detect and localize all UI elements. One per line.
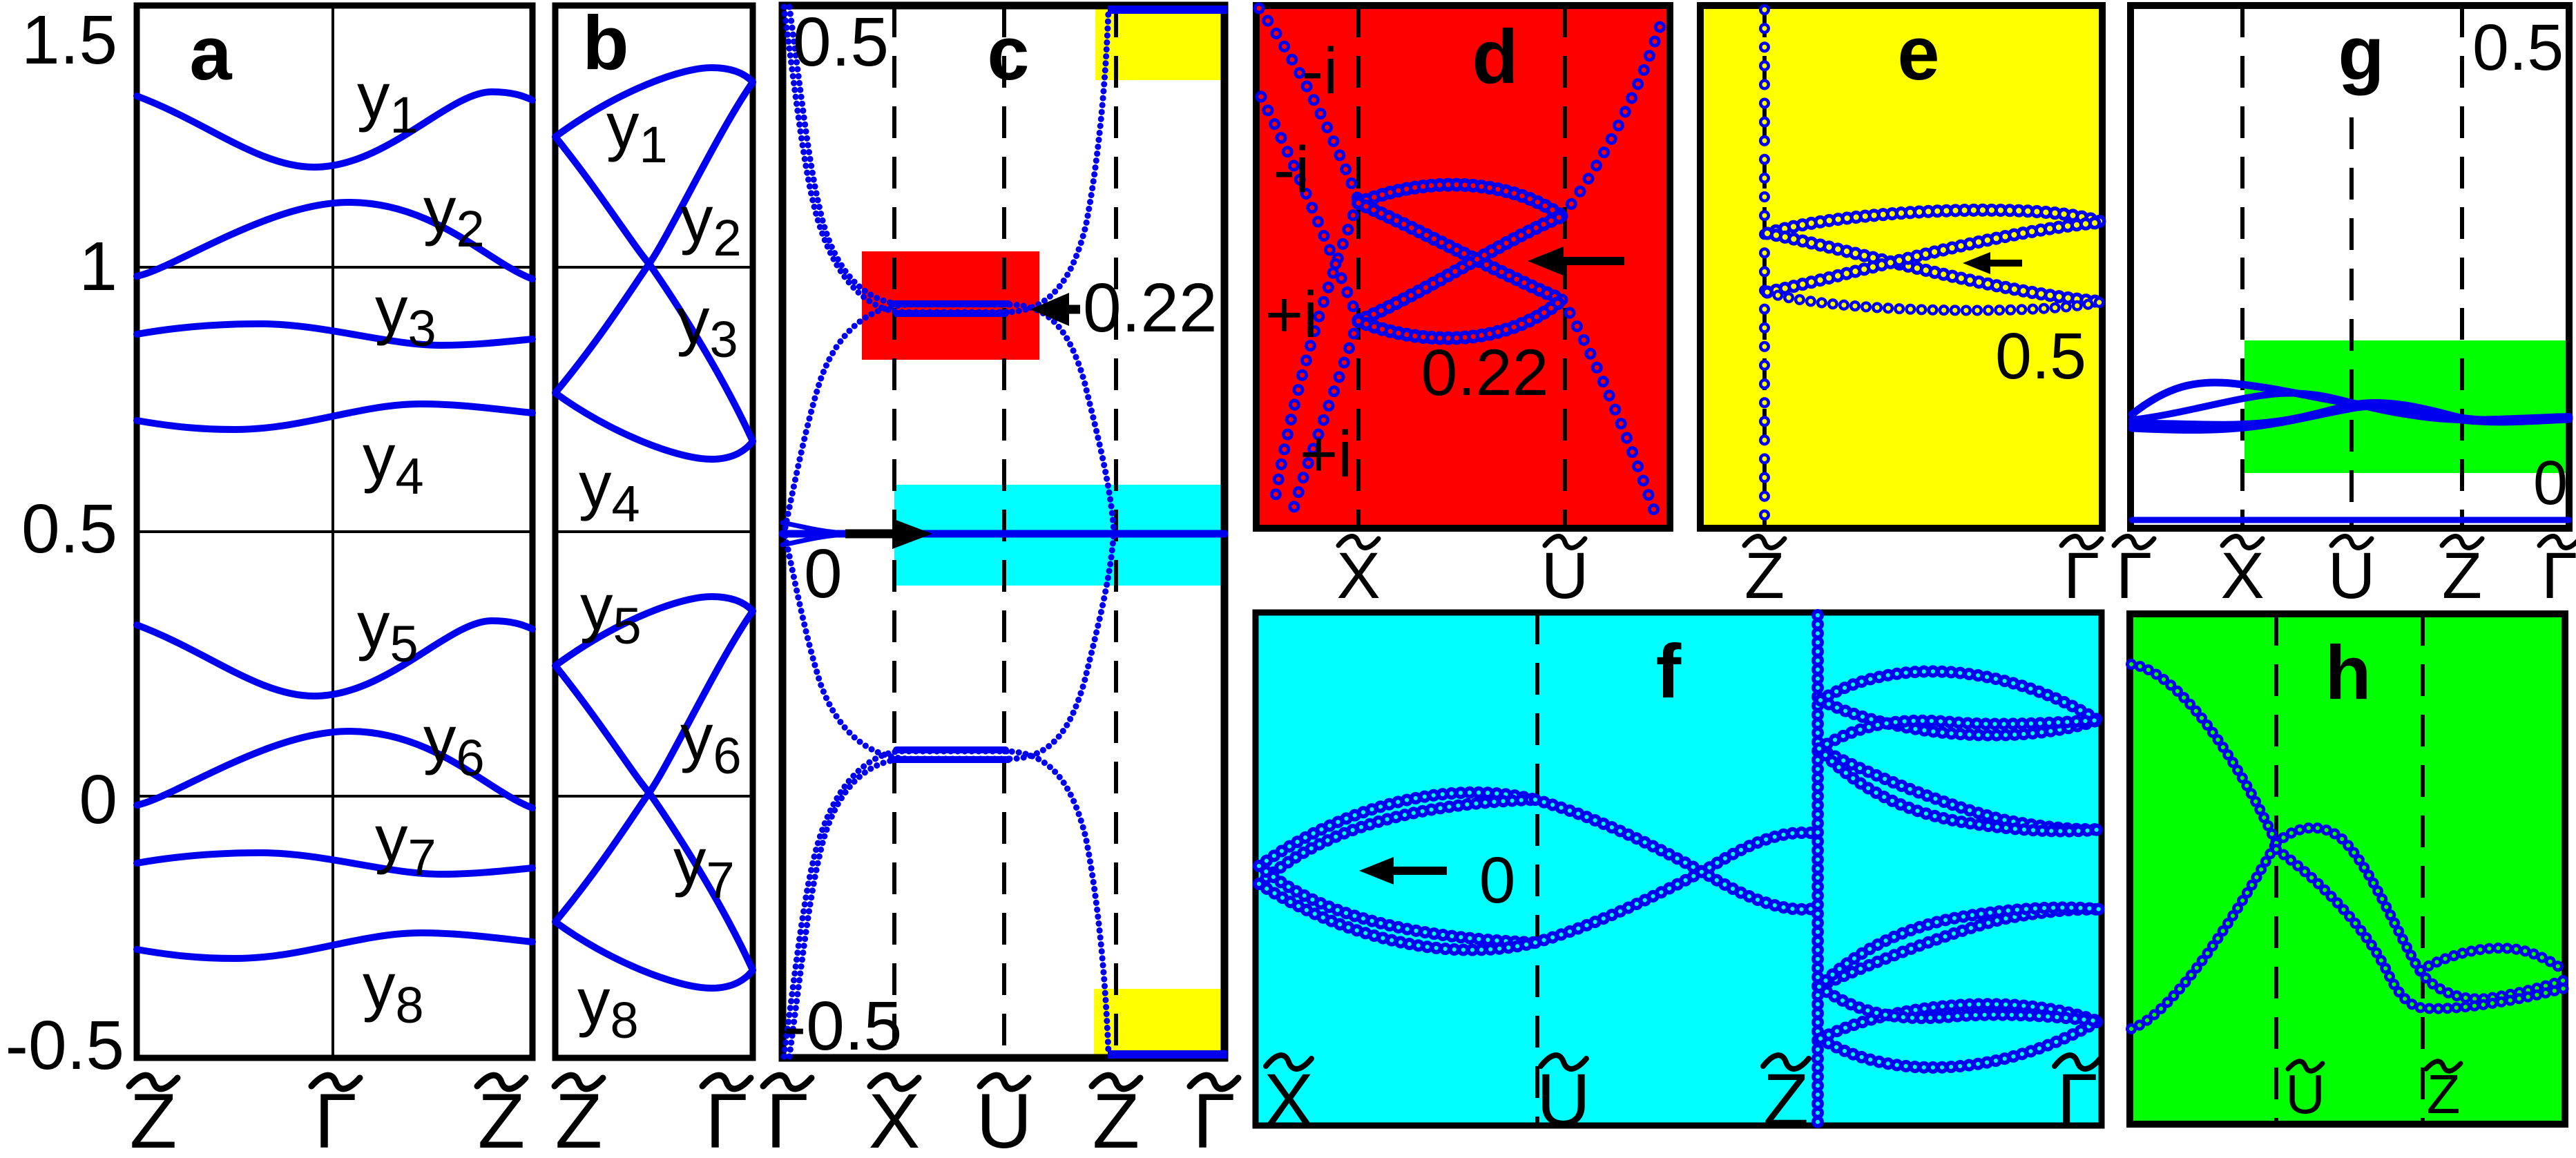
panel d arrow <box>1564 257 1624 265</box>
panel f background <box>1256 612 2102 1126</box>
svg-text:-0.5: -0.5 <box>6 1007 124 1084</box>
svg-text:0: 0 <box>804 535 843 612</box>
panel c pinch strand up <box>785 305 912 528</box>
panel d dotted chain right-up <box>1562 19 1662 216</box>
panel h lens upper arc <box>2421 948 2565 972</box>
panel d dashed U <box>1563 6 1567 528</box>
panel d dotted chain top-left <box>1259 8 1358 201</box>
panel c corner strand top a <box>784 7 1007 312</box>
panel c crosser lower <box>1010 530 1114 759</box>
panel f lens lower-inner <box>1259 866 1535 943</box>
svg-text:Z: Z <box>130 1078 177 1158</box>
panel b curve y1 <box>555 68 753 137</box>
panel b curve y7 <box>555 611 753 922</box>
panel e dashed Z <box>1762 6 1767 528</box>
panel f mid cross down <box>1535 800 1818 909</box>
panel c corner strand bottom a <box>784 751 1007 1056</box>
panel g band 1 <box>2132 383 2569 420</box>
panel c top flat band <box>1108 6 1227 14</box>
panel e background <box>1700 6 2102 528</box>
panel c zero band <box>782 530 1224 538</box>
panel a gridline y=0.5 <box>137 530 532 533</box>
svg-text:-i: -i <box>1273 133 1310 206</box>
svg-text:Z: Z <box>2442 539 2482 612</box>
panel a curve y3 <box>137 324 532 345</box>
panel d dashed X <box>1356 6 1361 528</box>
panel h background <box>2130 614 2565 1124</box>
panel c yellow box bottom <box>1094 989 1224 1055</box>
panel a curve y7 <box>137 853 532 874</box>
panel f lens upper-outer <box>1259 793 1535 866</box>
panel c dashed X <box>892 6 896 1058</box>
svg-text:0.5: 0.5 <box>793 3 889 81</box>
panel b frame <box>555 6 753 1058</box>
panel g frame bg <box>2131 6 2569 528</box>
panel f strand node3-tip <box>1819 987 2099 1021</box>
panel b curve y4 <box>555 393 753 459</box>
panel d dotted chain left2 <box>1261 97 1358 319</box>
panel e arc lower bulge <box>1767 292 2102 310</box>
panel c corner strand bottom b <box>789 759 1010 1056</box>
panel d arc lower bulge <box>1358 300 1562 338</box>
svg-text:0.5: 0.5 <box>21 490 117 568</box>
panel b gridline y=0 <box>555 795 753 798</box>
svg-text:-0.5: -0.5 <box>783 987 902 1065</box>
panel c braid flat u2 <box>896 310 1006 317</box>
panel h hump curve <box>2276 828 2565 999</box>
svg-text:Γ: Γ <box>2116 539 2152 612</box>
svg-text:Γ: Γ <box>1193 1078 1236 1158</box>
panel f leaf2 upper arc <box>1820 1004 2098 1039</box>
panel c riser strand <box>1005 11 1108 312</box>
svg-text:c: c <box>987 11 1029 96</box>
svg-text:h: h <box>2325 630 2371 715</box>
panel b curve y5 <box>555 597 753 666</box>
svg-text:U: U <box>977 1078 1032 1158</box>
svg-text:+i: +i <box>1300 418 1353 491</box>
svg-text:U: U <box>2328 539 2376 612</box>
svg-text:X: X <box>1264 1058 1314 1141</box>
panel b curve y3 <box>555 82 753 393</box>
svg-text:Γ: Γ <box>2064 539 2099 612</box>
svg-text:Z: Z <box>555 1078 602 1158</box>
panel e arrow <box>1990 260 2022 267</box>
panel a frame <box>137 6 532 1058</box>
svg-text:e: e <box>1897 11 1939 96</box>
panel d dotted chain right-down <box>1562 300 1655 512</box>
panel a curve y6 <box>137 731 532 808</box>
panel b gridline y=1 <box>555 266 753 269</box>
panel g frame <box>2131 6 2569 528</box>
panel f lens lower-outer <box>1259 884 1535 950</box>
panel b curve y6 <box>555 666 753 970</box>
panel a curve y8 <box>137 933 532 958</box>
panel e arc ascending <box>1767 222 2102 292</box>
panel c frame <box>782 6 1224 1058</box>
panel a midline Gamma <box>331 6 334 1058</box>
panel a curve y5 <box>137 621 532 696</box>
panel a curve y2 <box>137 202 532 279</box>
svg-text:Z: Z <box>1744 539 1785 612</box>
panel a curve y1 <box>137 92 532 167</box>
svg-text:Γ: Γ <box>766 1078 809 1158</box>
svg-text:1: 1 <box>79 228 117 305</box>
svg-text:Z: Z <box>1093 1078 1140 1158</box>
svg-text:0.5: 0.5 <box>2472 11 2564 84</box>
svg-text:a: a <box>189 11 232 96</box>
panel e arc descending <box>1767 233 2102 302</box>
svg-text:1.5: 1.5 <box>21 1 117 79</box>
panel g band 3 <box>2132 403 2569 425</box>
panel g dashed U <box>2349 117 2354 528</box>
panel c braid flat u1 <box>892 300 1008 307</box>
panel h direct descent <box>2276 849 2565 1009</box>
panel g band 4 <box>2132 406 2569 430</box>
svg-text:X: X <box>2220 539 2264 612</box>
panel c arrow right at 0 <box>845 530 892 539</box>
panel g dashed X <box>2240 6 2245 528</box>
panel f leaf1 lower arc <box>1820 700 2098 735</box>
svg-text:0: 0 <box>2533 449 2568 518</box>
panel c braid flat l1 <box>892 756 1008 763</box>
panel c yellow box top <box>1095 7 1222 80</box>
panel f mid cross up <box>1535 833 1818 943</box>
panel f lens upper-inner <box>1259 800 1535 884</box>
panel d arc diag down <box>1358 203 1562 300</box>
panel c crosser upper <box>1010 305 1114 533</box>
panel f leaf2 lower arc <box>1820 1021 2098 1068</box>
panel a gridline y=1 <box>137 266 532 269</box>
svg-text:Z: Z <box>2427 1063 2461 1125</box>
panel d arc upper bulge <box>1358 185 1562 216</box>
svg-text:X: X <box>1336 539 1380 612</box>
panel c cyan box <box>894 485 1224 586</box>
svg-text:U: U <box>1541 539 1589 612</box>
panel a curve y4 <box>137 404 532 430</box>
svg-text:Γ: Γ <box>2057 1058 2097 1141</box>
panel c downer strand <box>1005 751 1108 1052</box>
svg-text:d: d <box>1472 15 1518 99</box>
panel b curve y2 <box>555 137 753 441</box>
svg-text:Z: Z <box>478 1078 525 1158</box>
panel f arrow <box>1394 867 1447 875</box>
panel h curve from bottom-left <box>2131 843 2276 1029</box>
panel f strand node2-tip <box>1819 720 2099 749</box>
panel f strand node2-down2 <box>1819 749 2101 831</box>
panel c pinch strand down <box>785 536 912 759</box>
svg-text:g: g <box>2338 11 2384 96</box>
panel g green box <box>2245 340 2569 473</box>
panel h dashed Z <box>2421 614 2425 1124</box>
panel d dotted chain left-down2 <box>1293 319 1358 511</box>
svg-text:Γ: Γ <box>2541 539 2576 612</box>
panel g bottom flat band <box>2132 517 2569 523</box>
panel c dashed Z <box>1114 6 1118 1058</box>
svg-text:+i: +i <box>1265 278 1318 351</box>
panel c zero band fork <box>782 523 836 532</box>
panel a gridline y=0 <box>137 795 532 798</box>
svg-text:0: 0 <box>1479 844 1516 917</box>
panel d arc diag up <box>1358 216 1562 321</box>
panel b gridline y=0.5 <box>555 530 753 533</box>
panel f strand node3-up1 <box>1819 909 2101 987</box>
panel c arrow left at 0.22 <box>1069 305 1080 314</box>
panel d background <box>1256 6 1670 528</box>
svg-text:Z: Z <box>1763 1058 1809 1141</box>
panel c bottom flat band <box>1108 1050 1227 1059</box>
panel c corner strand top b <box>789 7 1010 305</box>
svg-text:f: f <box>1656 629 1682 714</box>
svg-text:0.22: 0.22 <box>1421 336 1549 409</box>
panel f strand node2-down1 <box>1819 749 2101 829</box>
svg-text:U: U <box>1537 1058 1590 1141</box>
panel f leaf1 upper arc <box>1820 671 2098 720</box>
panel g band 2 <box>2132 393 2569 420</box>
panel c braid flat l2 <box>896 746 1006 753</box>
panel f dashed Z <box>1816 612 1820 1126</box>
panel h dashed U <box>2274 614 2278 1124</box>
svg-text:0: 0 <box>79 761 117 838</box>
svg-text:U: U <box>2285 1063 2325 1125</box>
panel g dashed Z <box>2460 6 2464 528</box>
svg-text:Γ: Γ <box>705 1078 748 1158</box>
panel d dotted chain left-down1 <box>1274 201 1358 504</box>
svg-text:Γ: Γ <box>314 1078 357 1158</box>
svg-text:0.22: 0.22 <box>1083 269 1218 347</box>
svg-text:X: X <box>869 1078 921 1158</box>
panel f vertical dotted Z <box>1811 615 1824 1123</box>
panel h curve from top-left <box>2131 664 2276 843</box>
svg-text:-i: -i <box>1302 35 1338 108</box>
svg-text:b: b <box>582 1 628 86</box>
panel c red box <box>862 251 1039 360</box>
svg-text:0.5: 0.5 <box>1995 320 2086 393</box>
panel b curve y8 <box>555 922 753 988</box>
panel f dashed U <box>1535 612 1539 1126</box>
panel e vertical dotted line <box>1759 10 1770 525</box>
panel e arc upper bulge <box>1767 210 2102 233</box>
panel f strand node3-up2 <box>1819 907 2101 987</box>
panel c dashed U <box>1002 6 1006 1058</box>
